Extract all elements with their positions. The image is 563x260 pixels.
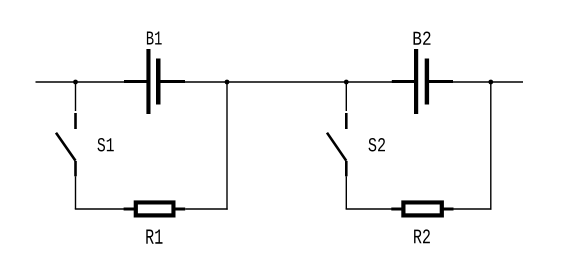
wire: top bus right segment bbox=[427, 81, 523, 83]
resistor R2 bbox=[391, 200, 453, 217]
label B2 bbox=[414, 32, 431, 45]
switch S2 bbox=[327, 82, 346, 209]
wire: top bus left segment bbox=[36, 81, 149, 83]
label R1 bbox=[146, 230, 162, 244]
wire: top bus middle segment bbox=[158, 81, 416, 83]
node J1 (junction dot) bbox=[73, 80, 78, 85]
battery B1 bbox=[124, 49, 185, 114]
wire: right loop bottom-left segment bbox=[346, 208, 393, 210]
node J3 (junction dot) bbox=[344, 80, 349, 85]
battery B2 bbox=[392, 49, 453, 114]
wire: left loop bottom-left segment bbox=[75, 208, 125, 210]
switch S1 bbox=[56, 82, 76, 209]
node J4 (junction dot) bbox=[488, 80, 493, 85]
label S1 bbox=[98, 138, 114, 152]
label S2 bbox=[369, 138, 386, 152]
resistor R1 bbox=[124, 200, 186, 217]
wire: left loop bottom-right segment bbox=[185, 208, 228, 210]
node J2 (junction dot) bbox=[225, 80, 230, 85]
wire: right loop bottom-right segment bbox=[454, 208, 492, 210]
label B1 bbox=[147, 32, 162, 45]
label R2 bbox=[414, 229, 430, 243]
wire: left loop right vertical bbox=[226, 82, 228, 210]
wire: right loop right vertical bbox=[490, 82, 492, 210]
